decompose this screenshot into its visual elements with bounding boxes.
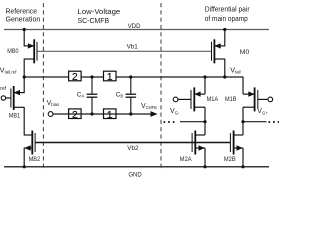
wire: Vbias SC bottom row xyxy=(53,113,153,115)
svg-text:Vb2: Vb2 xyxy=(127,145,139,152)
Vb2 bias line xyxy=(35,142,230,144)
svg-text:MB1: MB1 xyxy=(9,113,21,119)
svg-text:Differential pair: Differential pair xyxy=(205,5,250,14)
wire: left spine MB0 source xyxy=(23,30,25,47)
transistor M2B (NMOS) xyxy=(230,131,243,155)
switch box 2 (top) xyxy=(69,71,82,83)
wire: MB1 drain to MB2 drain xyxy=(23,107,25,136)
section label: Low-Voltage SC-CMFB xyxy=(78,7,121,25)
svg-text:2: 2 xyxy=(72,72,78,83)
svg-text:MB2: MB2 xyxy=(29,157,41,163)
wire: M2B drain up xyxy=(242,122,244,135)
junction dot M2A source at GND xyxy=(203,165,206,168)
switch box 1 (bottom) xyxy=(104,109,117,121)
wire: M0 source xyxy=(224,30,226,47)
transistor M1A (PMOS) xyxy=(178,87,205,111)
capacitor CB xyxy=(126,77,137,114)
wire: M2A source to GND xyxy=(204,148,206,167)
transistor MB2 (NMOS) xyxy=(24,131,35,155)
svg-text:GND: GND xyxy=(128,172,142,178)
wire: M1B drain down xyxy=(242,107,244,122)
junction dot VDD/MB0 xyxy=(23,28,26,31)
wire: M1B source from Vtail row corner xyxy=(242,77,244,95)
svg-text:M2B: M2B xyxy=(224,157,236,163)
Vb1 bias line xyxy=(37,50,212,52)
junction dot VDD/M0 xyxy=(223,28,226,31)
transistor M0 (PMOS) xyxy=(212,39,225,63)
svg-text:1: 1 xyxy=(107,72,113,83)
junction dot M1B/M2B drains xyxy=(241,120,244,123)
svg-text:Vb1: Vb1 xyxy=(127,44,139,51)
ellipsis left output xyxy=(163,121,174,123)
wire: M0 drain to Vtail row xyxy=(224,59,226,78)
junction dot Vtail,ref node xyxy=(23,75,26,78)
terminal circle VG+ xyxy=(268,97,273,102)
junction dot M0 drain at Vtail row xyxy=(223,75,226,78)
svg-text:1: 1 xyxy=(107,110,113,121)
junction dot M1A source tap xyxy=(203,75,206,78)
svg-text:Generation: Generation xyxy=(6,15,41,24)
terminal circle Vbias xyxy=(48,112,53,117)
svg-text:ref: ref xyxy=(0,86,6,92)
junction dot MB2 source at GND xyxy=(23,165,26,168)
section label: Reference Generation xyxy=(6,7,41,24)
junction dot node A top xyxy=(90,75,93,78)
svg-text:VDD: VDD xyxy=(128,24,141,30)
svg-text:Low-Voltage: Low-Voltage xyxy=(78,7,121,16)
transistor M2A (NMOS) xyxy=(192,131,205,155)
capacitor CA xyxy=(87,77,98,114)
transistor M1B (PMOS mirrored) xyxy=(243,87,268,111)
switch box 2 (bottom) xyxy=(69,109,82,121)
transistor MB1 (PMOS) xyxy=(6,86,25,110)
junction dot CB bottom xyxy=(129,112,132,115)
junction dot CA bottom xyxy=(90,112,93,115)
ellipsis right output xyxy=(268,121,279,123)
svg-text:M1B: M1B xyxy=(225,97,237,103)
svg-text:2: 2 xyxy=(72,110,78,121)
wire: output node right xyxy=(243,121,267,123)
svg-text:of main opamp: of main opamp xyxy=(205,14,248,23)
wire: output node left xyxy=(180,121,205,123)
wire: MB2 source to GND xyxy=(23,148,25,167)
arrow VCMFB output xyxy=(151,111,158,117)
svg-text:MB0: MB0 xyxy=(7,49,19,55)
svg-text:M1A: M1A xyxy=(207,97,219,103)
wire: left spine MB0 drain to Vtail,ref node xyxy=(23,59,25,78)
node Vtail,ref row wire xyxy=(24,76,243,78)
wire: M2B source to GND xyxy=(242,148,244,167)
dashed separator line right xyxy=(160,3,162,171)
wire: left spine MB1 source xyxy=(23,77,25,93)
terminal circle MB1 gate (Vref input) xyxy=(1,96,5,100)
GND rail xyxy=(4,166,269,168)
wire: M1A drain down xyxy=(204,107,206,122)
junction dot node B top xyxy=(129,75,132,78)
wire: M2A drain up xyxy=(204,122,206,135)
junction dot M2B source at GND xyxy=(241,165,244,168)
svg-text:SC-CMFB: SC-CMFB xyxy=(78,16,110,25)
VDD rail xyxy=(4,29,269,31)
dashed separator line left xyxy=(42,3,44,171)
section label: Differential pair of main opamp xyxy=(205,5,250,24)
svg-text:M0: M0 xyxy=(240,50,250,56)
junction dot M1A/M2A drains xyxy=(203,120,206,123)
svg-text:M2A: M2A xyxy=(180,157,192,163)
switch box 1 (top) xyxy=(104,71,117,83)
terminal circle VG- xyxy=(173,97,178,102)
wire: M1A source to Vtail row xyxy=(204,77,206,94)
transistor MB0 (PMOS) xyxy=(24,39,37,63)
